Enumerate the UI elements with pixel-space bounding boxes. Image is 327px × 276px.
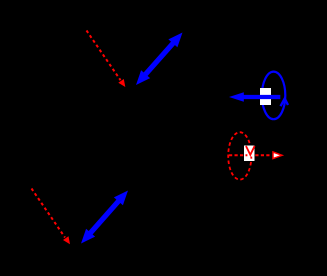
spin ellipse (blue, solid)	[262, 72, 285, 120]
momentum arrow 2 (red dashed, pointing right)	[229, 152, 282, 159]
red ellipse edge dash inside square	[250, 157, 252, 159]
spin direction arrowhead (red V, down)	[246, 146, 255, 155]
linear polarization arrow 1 (blue double-headed, upper)	[136, 33, 183, 86]
incoming ray 2 (red dashed, lower left)	[32, 189, 71, 245]
linear polarization arrow 2 (blue double-headed, lower)	[81, 191, 128, 244]
momentum arrow 1 (blue, pointing left)	[229, 92, 280, 102]
wave plate square 2 (white)	[244, 146, 255, 162]
spin ellipse (red, dashed)	[228, 132, 251, 179]
spin direction arrowhead (blue V, up)	[281, 99, 289, 107]
wave plate square 1 (white)	[260, 88, 271, 105]
incoming ray 1 (red dashed, upper left)	[87, 31, 126, 88]
